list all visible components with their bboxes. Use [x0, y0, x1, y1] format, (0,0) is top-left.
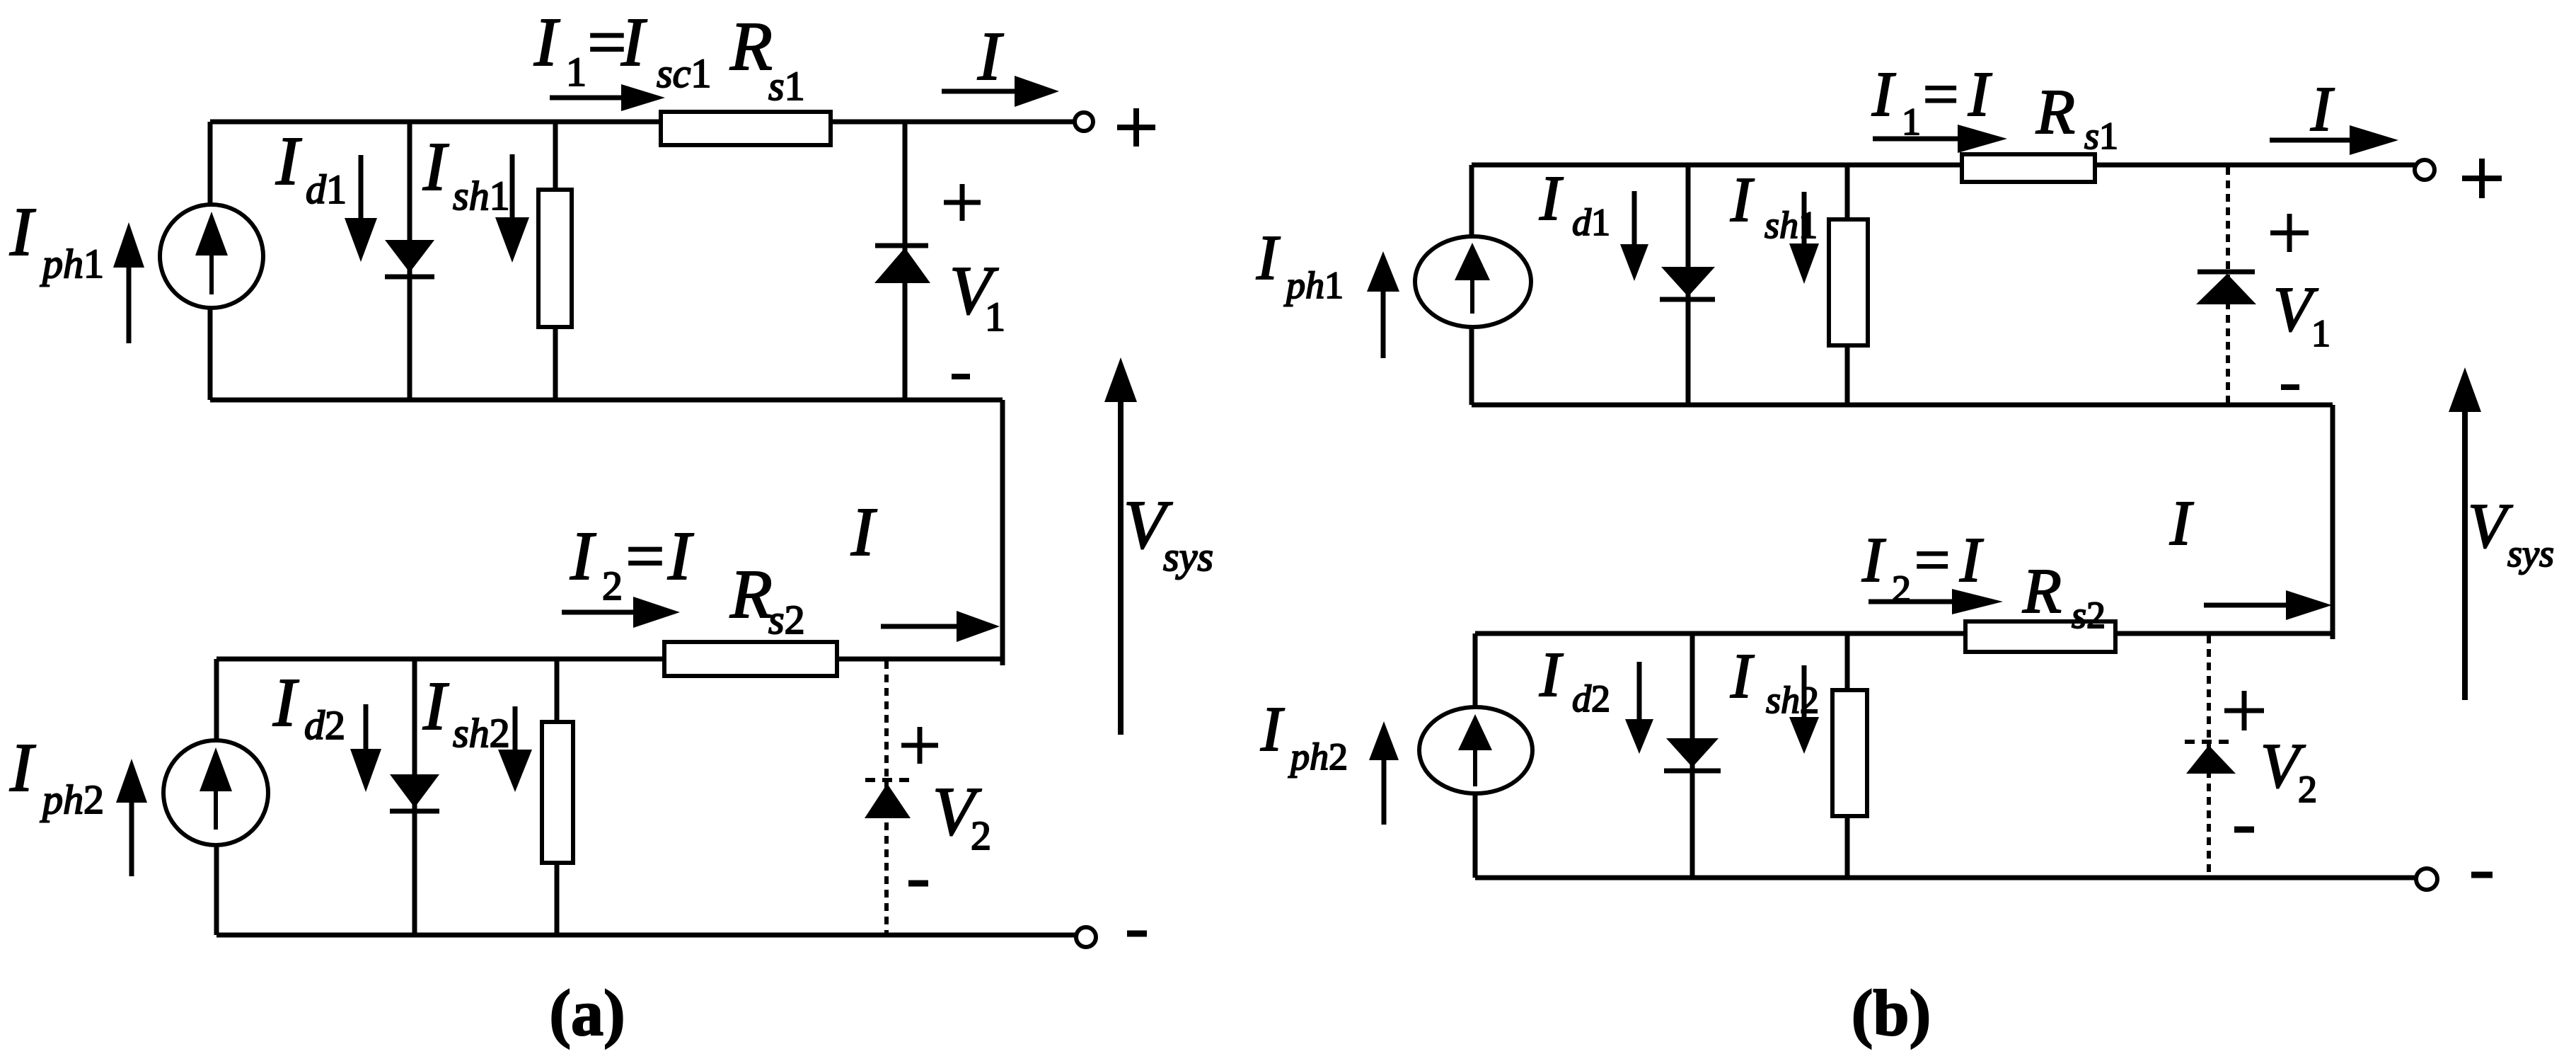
svg-text:sc1: sc1 — [657, 50, 711, 96]
svg-text:I: I — [1959, 525, 1984, 595]
svg-text:ph1: ph1 — [1283, 264, 1344, 306]
arrow I mid (b) — [2204, 603, 2286, 608]
svg-text:R: R — [729, 556, 773, 633]
svg-text:I: I — [9, 194, 36, 270]
plus sign output (b) — [2462, 176, 2502, 181]
svg-text:I: I — [1539, 640, 1564, 710]
wire: (b) shunt Rsh1 branch — [1845, 165, 1850, 405]
arrow Id1 (b) — [1632, 191, 1637, 244]
svg-text:sh1: sh1 — [453, 173, 510, 219]
svg-text:d1: d1 — [306, 166, 347, 212]
svg-text:sh2: sh2 — [453, 710, 510, 756]
minus sign V1 (a) — [952, 374, 970, 379]
wire: (a) bypass diode V1 branch — [903, 122, 908, 400]
arrow Ish1 (a) — [510, 154, 515, 217]
svg-text:I: I — [422, 668, 449, 745]
arrow Ish2 (b) — [1802, 665, 1807, 717]
resistor Rs1 (b) — [1962, 154, 2095, 182]
svg-text:I: I — [2310, 74, 2335, 144]
svg-text:=: = — [1910, 525, 1953, 595]
minus sign output (a) — [1127, 931, 1147, 937]
svg-text:s1: s1 — [768, 63, 805, 109]
arrow Ish1 (b) — [1802, 192, 1807, 243]
arrow Id2 (a) — [364, 704, 369, 749]
resistor Rs1 (a) — [661, 112, 831, 145]
diode V1 (a) — [875, 243, 928, 248]
current source Iph2 (a) — [163, 740, 268, 845]
svg-text:I: I — [422, 129, 449, 205]
wire: (b) cell2 bottom rail — [1475, 876, 2417, 881]
svg-text:=: = — [621, 518, 668, 595]
wire: (a) shunt Rsh1 branch — [553, 122, 558, 400]
arrow I2 (b) — [1869, 600, 1952, 604]
current source Iph2 (b) — [1419, 707, 1532, 793]
wire: (b) diode D1 branch — [1686, 165, 1691, 405]
svg-text:V: V — [2468, 491, 2513, 561]
resistor Rs2 (a) — [664, 642, 837, 676]
terminal + (a) — [1075, 113, 1093, 131]
svg-text:I: I — [977, 18, 1004, 95]
svg-text:d1: d1 — [1572, 201, 1610, 243]
arrow I1 (b) — [1873, 137, 1958, 142]
svg-text:R: R — [2022, 556, 2062, 626]
svg-text:ph2: ph2 — [40, 776, 104, 822]
svg-text:sh1: sh1 — [1764, 204, 1818, 246]
svg-text:s2: s2 — [768, 597, 805, 643]
wire: (a) cell2 top rail — [216, 657, 1003, 662]
arrow Vsys (b) — [2462, 411, 2468, 700]
wire: (a) shunt Rsh2 branch — [555, 659, 560, 935]
wire: (a) diode D1 branch — [408, 122, 412, 400]
arrow Ish2 (a) — [513, 706, 518, 750]
resistor Rsh1 (b) — [1829, 219, 1868, 345]
wire: (b) bypass diode V1 branch (dashed) — [2226, 167, 2230, 405]
arrow Iph1 (a) — [113, 222, 144, 268]
wire: (a) cell1 top rail — [210, 120, 1074, 125]
diode V1 (b) — [2197, 270, 2255, 275]
wire: (a) series link vertical (cell1 to cell2) — [1000, 400, 1005, 665]
svg-text:I: I — [1539, 164, 1564, 234]
wire: (a) cell1 bottom rail — [210, 398, 1003, 403]
svg-text:2: 2 — [2298, 768, 2317, 810]
minus sign output (b) — [2471, 872, 2493, 878]
svg-text:d2: d2 — [1572, 677, 1610, 720]
wire: (b) cell2 top rail — [1475, 631, 2333, 636]
svg-text:I: I — [1861, 525, 1886, 595]
current source Iph1 (a) — [160, 205, 263, 308]
arrow Iph2 (b) — [1369, 721, 1399, 760]
svg-text:I: I — [1260, 694, 1285, 764]
svg-text:s2: s2 — [2072, 594, 2106, 636]
resistor Rsh2 (a) — [542, 722, 573, 863]
svg-text:I: I — [1968, 59, 1992, 130]
svg-text:I: I — [570, 518, 596, 595]
wire: (b) diode D2 branch — [1690, 633, 1695, 878]
svg-text:(b): (b) — [1852, 977, 1931, 1049]
minus sign V2 (b) — [2234, 827, 2254, 833]
svg-text:1: 1 — [2311, 312, 2330, 355]
svg-text:ph2: ph2 — [1288, 735, 1348, 778]
svg-text:I: I — [667, 518, 694, 595]
svg-text:d2: d2 — [304, 702, 345, 748]
arrow I output (b) — [2270, 138, 2350, 143]
resistor Rs2 (b) — [1965, 621, 2115, 652]
resistor Rsh1 (a) — [538, 190, 572, 327]
svg-text:s1: s1 — [2084, 115, 2118, 157]
svg-text:I: I — [1730, 641, 1755, 711]
svg-text:sys: sys — [2507, 532, 2554, 575]
svg-text:sys: sys — [1163, 534, 1213, 580]
svg-text:R: R — [2035, 77, 2075, 147]
svg-text:sh2: sh2 — [1766, 679, 1819, 721]
arrow Iph1 (b) — [1367, 251, 1399, 292]
plus sign V1 (a) — [944, 200, 981, 205]
svg-text:=: = — [1919, 59, 1962, 130]
svg-text:I: I — [1871, 59, 1896, 130]
wire: (a) cell1 left vertical — [208, 122, 213, 400]
svg-text:I: I — [850, 494, 877, 570]
svg-text:I: I — [1730, 165, 1755, 235]
terminal + (b) — [2415, 160, 2435, 180]
arrow Id1 (a) — [359, 155, 364, 218]
terminal - (a) — [1076, 927, 1096, 947]
wire: (b) series link vertical (cell1 to cell2) — [2330, 405, 2335, 639]
diode D2 (a) — [390, 774, 439, 808]
diode V2 (b) — [2185, 740, 2236, 744]
resistor Rsh2 (b) — [1832, 690, 1867, 816]
svg-text:ph1: ph1 — [40, 241, 104, 287]
minus sign V2 (a) — [908, 881, 928, 887]
plus sign V2 (b) — [2224, 709, 2264, 713]
wire: (b) bypass diode V2 branch (dashed) — [2207, 636, 2211, 878]
diode D1 (b) — [1661, 267, 1715, 297]
wire: (b) cell1 top rail — [1472, 163, 2415, 168]
minus sign V1 (b) — [2281, 384, 2299, 390]
arrow I1 (a) — [550, 96, 621, 101]
plus sign output (a) — [1117, 125, 1155, 130]
wire: (a) diode D2 branch — [412, 659, 417, 935]
svg-text:I: I — [620, 4, 647, 81]
diode D1 (a) — [385, 240, 434, 273]
svg-text:I: I — [9, 730, 36, 806]
terminal - (b) — [2416, 868, 2437, 890]
svg-text:2: 2 — [602, 563, 623, 609]
wire: (b) shunt Rsh2 branch — [1845, 633, 1850, 878]
wire: (b) cell1 left vertical — [1469, 165, 1474, 405]
svg-text:I: I — [1256, 223, 1281, 293]
svg-text:I: I — [275, 123, 302, 200]
diode V2 (a) — [865, 778, 912, 782]
svg-text:I: I — [533, 4, 560, 81]
svg-text:1: 1 — [985, 294, 1005, 340]
arrow Iph2 (a) — [116, 759, 147, 803]
svg-text:R: R — [729, 8, 773, 85]
wire: (a) cell2 bottom rail — [216, 933, 1076, 938]
arrow Vsys (a) — [1118, 401, 1124, 735]
svg-text:I: I — [272, 665, 299, 741]
wire: (b) cell1 bottom rail — [1472, 403, 2333, 408]
current source Iph1 (b) — [1415, 236, 1531, 327]
svg-text:2: 2 — [971, 813, 991, 859]
svg-text:I: I — [2169, 488, 2194, 558]
arrow Id2 (b) — [1637, 662, 1642, 719]
diode D2 (b) — [1666, 738, 1719, 767]
arrow I2 (a) — [562, 610, 633, 615]
wire: (a) bypass diode V2 branch (dashed) — [884, 661, 889, 935]
wire: (b) cell2 left vertical — [1473, 633, 1478, 878]
arrow I output (a) — [942, 89, 1015, 94]
plus sign V2 (a) — [901, 743, 938, 748]
wire: (a) cell2 left vertical — [214, 659, 219, 935]
svg-text:(a): (a) — [549, 977, 625, 1049]
plus sign V1 (b) — [2270, 231, 2309, 236]
arrow I mid (a) — [881, 624, 957, 629]
